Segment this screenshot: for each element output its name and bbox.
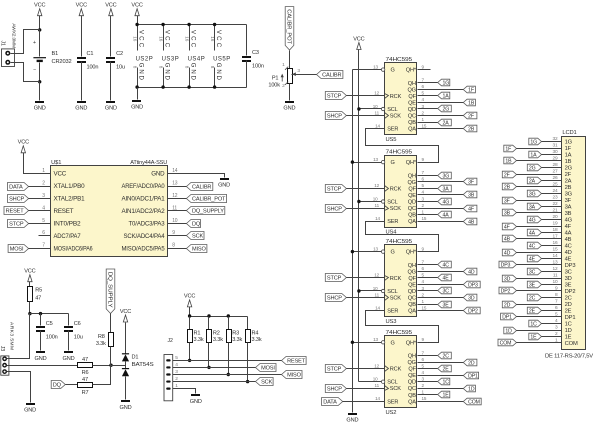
svg-text:11: 11 — [375, 110, 380, 115]
svg-text:J1: J1 — [0, 41, 6, 46]
net label DATA (US2 SER) — [322, 398, 343, 406]
svg-text:16: 16 — [184, 36, 189, 41]
svg-text:DP2: DP2 — [468, 308, 478, 314]
svg-text:3E: 3E — [529, 282, 536, 288]
wire US5 QH to 1G — [418, 82, 438, 84]
svg-text:1C: 1C — [443, 379, 450, 385]
net label 2F (LCD pin 27) — [502, 171, 516, 178]
wire DP1 to LCD pin 5 — [517, 316, 562, 318]
svg-text:23: 23 — [552, 195, 558, 201]
junction VCC rail R1 — [188, 314, 191, 317]
wire US3 QC to 3D — [418, 297, 464, 299]
svg-text:GND: GND — [120, 405, 132, 411]
svg-text:US2P: US2P — [136, 57, 153, 63]
svg-text:CR2032: CR2032 — [52, 59, 72, 65]
wire US2 QC to 1D — [418, 388, 464, 390]
pin stub ADC7/PA7 (pin 6, n.c.) — [39, 235, 51, 237]
net label 3E (LCD pin 10) — [527, 281, 541, 288]
wire 2B to LCD pin 25 — [517, 186, 562, 188]
net label STCP (US4) — [325, 185, 346, 193]
svg-text:3G: 3G — [443, 173, 450, 179]
svg-text:RESET: RESET — [287, 358, 306, 364]
svg-text:5: 5 — [42, 218, 45, 224]
svg-text:12: 12 — [374, 273, 379, 278]
wire U$1 GND pin 14 — [168, 174, 225, 178]
net label RESET (J2) — [282, 357, 307, 365]
net label 2B (LCD pin 25) — [502, 183, 516, 190]
ground (J3) — [26, 403, 35, 405]
svg-text:4A: 4A — [529, 230, 536, 236]
net label MOSI (J2) — [256, 364, 277, 372]
ground (C1) — [77, 101, 86, 103]
wire SHCP to US2 SCK — [347, 388, 385, 390]
battery B1 CR2032 — [39, 30, 41, 57]
svg-text:3.3k: 3.3k — [194, 337, 204, 343]
svg-text:AIN1/ADC2/PA2: AIN1/ADC2/PA2 — [122, 208, 166, 215]
svg-text:CALIBR: CALIBR — [192, 184, 211, 190]
svg-text:2E: 2E — [443, 366, 450, 372]
capacitor C5 100n — [40, 314, 42, 326]
net label 4D (LCD pin 15) — [502, 249, 516, 256]
wire 4F to LCD pin 19 — [517, 226, 562, 228]
shift register US4 74HC595 — [385, 156, 417, 228]
net label SHCP (US5) — [325, 112, 346, 120]
shift register US3 74HC595 — [385, 245, 417, 317]
svg-text:SHCP: SHCP — [327, 113, 342, 119]
svg-text:2G: 2G — [443, 106, 450, 112]
svg-text:10u: 10u — [74, 335, 83, 341]
svg-text:US5P: US5P — [213, 57, 230, 63]
net label 1D (LCD pin 3) — [504, 327, 517, 334]
wire US4 SCL pin to VCC rail — [359, 201, 382, 203]
wire J2 pin4 to MOSI — [173, 367, 256, 369]
wire R7 to node B — [93, 366, 111, 385]
wire US4 QG to 3F — [418, 181, 464, 183]
wire pull-up VCC rail — [190, 316, 248, 318]
svg-text:GND: GND — [163, 63, 170, 81]
svg-text:QC: QC — [408, 296, 416, 302]
net label DATA (U$1 pin 2) — [8, 183, 29, 191]
net label 2B (US5) — [463, 125, 477, 132]
svg-text:−: − — [33, 67, 36, 73]
wire 4C to LCD pin 16 — [542, 245, 562, 247]
svg-text:4E: 4E — [565, 257, 572, 263]
svg-text:15: 15 — [422, 216, 427, 221]
wire SHCP to US5 SCK — [347, 115, 385, 117]
net label 4A (US4) — [438, 211, 452, 218]
svg-text:1A: 1A — [565, 153, 572, 159]
svg-text:1F: 1F — [505, 146, 511, 152]
svg-text:D1: D1 — [132, 354, 139, 360]
svg-text:74HC595: 74HC595 — [386, 330, 413, 336]
svg-text:1D: 1D — [505, 328, 512, 334]
svg-text:US4P: US4P — [188, 57, 205, 63]
resistor R7 47 — [78, 383, 93, 388]
svg-text:GND: GND — [137, 63, 144, 81]
wire rail to C3 — [246, 25, 248, 56]
svg-text:GND: GND — [105, 105, 117, 111]
svg-text:13: 13 — [373, 64, 378, 69]
svg-text:C3: C3 — [252, 50, 259, 56]
wire US2 QH to 2C — [418, 355, 438, 357]
svg-text:1A: 1A — [443, 93, 450, 99]
wire SHCP to pin 3 — [29, 198, 51, 200]
wire GND bottom rail — [138, 87, 247, 89]
net label CALIBR (at P1) — [317, 71, 343, 79]
svg-text:3.3k: 3.3k — [252, 337, 262, 343]
wire 3C to LCD pin 12 — [542, 271, 562, 273]
ground (P1) — [285, 101, 294, 103]
wire P1 wiper to CALIBR label — [292, 74, 317, 76]
svg-text:QB: QB — [408, 213, 416, 219]
svg-text:100k: 100k — [268, 83, 280, 89]
svg-text:2B: 2B — [504, 184, 511, 190]
svg-text:RESET: RESET — [54, 208, 74, 215]
svg-text:2G: 2G — [565, 166, 573, 172]
svg-text:4A: 4A — [443, 212, 450, 218]
svg-text:DP2: DP2 — [501, 288, 511, 294]
svg-text:C5: C5 — [46, 321, 53, 327]
wire 4A to LCD pin 18 — [542, 232, 562, 234]
wire J3 pin2 to R6 — [7, 365, 78, 367]
wire J3 pin3 to ground — [7, 372, 31, 403]
wire US2 QA to COM — [418, 401, 464, 403]
wire 1D to LCD pin 3 — [517, 330, 562, 332]
svg-text:GND: GND — [346, 418, 358, 423]
svg-text:R7: R7 — [82, 390, 89, 396]
wire US4 QB to 4A — [418, 214, 438, 216]
net label 2C (US2) — [438, 352, 452, 359]
junction VCC rail US4 — [357, 200, 360, 203]
wire 3A to LCD pin 22 — [542, 206, 562, 208]
net label 3F (US4) — [463, 178, 477, 185]
svg-text:2A: 2A — [565, 179, 572, 185]
svg-text:74HC595: 74HC595 — [386, 150, 413, 156]
svg-text:J3: J3 — [0, 346, 5, 351]
wire 4E to LCD pin 14 — [542, 258, 562, 260]
svg-text:SCK: SCK — [390, 114, 401, 120]
net label 1F (LCD pin 31) — [504, 145, 517, 152]
svg-text:ADC7/PA7: ADC7/PA7 — [54, 233, 82, 240]
wire US2 QG to 2D — [418, 362, 464, 364]
svg-text:4E: 4E — [529, 256, 536, 262]
resistor R6 47 — [78, 363, 93, 368]
svg-text:2C: 2C — [565, 296, 572, 302]
connector J2 (ISP header) — [164, 355, 173, 401]
wire DQ_SUPPLY to R8 — [110, 314, 112, 333]
svg-text:US3: US3 — [386, 319, 397, 325]
wire R5 to node A — [29, 302, 31, 314]
svg-text:MISO: MISO — [192, 246, 206, 252]
wire US5 G pin to GND rail — [353, 69, 382, 71]
net label DP2 (LCD pin 9) — [499, 287, 517, 294]
pin stub US5 QH* (pin 9, n.c.) — [418, 69, 431, 71]
svg-text:3F: 3F — [468, 179, 474, 185]
wire node B to D1 — [111, 365, 126, 367]
net label 2D (LCD pin 7) — [502, 301, 516, 308]
net label 1C (US2) — [438, 378, 450, 385]
ground (J2) — [191, 394, 200, 396]
svg-text:13: 13 — [172, 180, 178, 186]
svg-text:16: 16 — [132, 36, 137, 41]
connector J1 AWX2.0MM — [2, 49, 15, 67]
svg-text:DP3: DP3 — [565, 263, 576, 269]
svg-text:XTAL2/PB1: XTAL2/PB1 — [54, 196, 86, 203]
svg-text:15: 15 — [422, 396, 427, 401]
junction VCC rail US5 — [357, 107, 360, 110]
wire 1G to LCD pin 32 — [542, 141, 562, 143]
svg-text:R1: R1 — [194, 331, 201, 337]
svg-text:2C: 2C — [529, 295, 536, 301]
wire J2 pin2 to SCK — [173, 381, 256, 383]
wire 3D to LCD pin 11 — [517, 278, 562, 280]
svg-text:2B: 2B — [565, 185, 572, 191]
wire US3 QA to DP2 — [418, 310, 464, 312]
svg-text:GND: GND — [63, 356, 75, 362]
wire 3E to LCD pin 10 — [542, 284, 562, 286]
svg-text:1B: 1B — [565, 159, 572, 165]
net label 2A (US5) — [438, 119, 452, 126]
junction US5P GND — [213, 85, 216, 88]
wire US3 QH to 4C — [418, 264, 438, 266]
wire DP2 to LCD pin 9 — [517, 290, 562, 292]
svg-text:1F: 1F — [565, 146, 572, 152]
net label DP3 (LCD pin 13) — [499, 261, 517, 268]
svg-text:QC: QC — [408, 206, 416, 212]
wire COM to LCD pin 1 — [517, 342, 562, 344]
wire US4 QH to 3G — [418, 175, 438, 177]
net label 4C (LCD pin 16) — [527, 242, 541, 249]
wire US3 QE to DP3 — [418, 284, 464, 286]
svg-text:16: 16 — [210, 36, 215, 41]
junction node A (sensor supply) — [28, 312, 31, 315]
junction US4P VCC — [187, 23, 190, 26]
ground (battery) — [35, 101, 44, 103]
svg-text:3A: 3A — [565, 205, 572, 211]
net label 2A (LCD pin 26) — [527, 177, 541, 184]
svg-text:11: 11 — [375, 292, 380, 297]
svg-text:4A: 4A — [565, 231, 572, 237]
svg-text:C6: C6 — [74, 321, 81, 327]
wire P1 to ground — [289, 84, 291, 101]
net label 3G (US4) — [438, 172, 452, 179]
wire US3 QB to 3E — [418, 304, 438, 306]
svg-text:MOSI: MOSI — [10, 246, 24, 252]
ground (C6) — [64, 351, 73, 353]
wire US4 QE to 3B — [418, 194, 464, 196]
net label 1G (LCD pin 32) — [529, 138, 542, 145]
wire STCP to US3 RCK — [347, 277, 385, 279]
wire VCC to U$1 pin 1 — [24, 153, 51, 174]
wire J2 pin3 to MISO — [173, 374, 282, 376]
junction US3P GND — [161, 85, 164, 88]
svg-text:2D: 2D — [504, 302, 511, 308]
svg-text:GND: GND — [151, 171, 165, 178]
svg-text:2F: 2F — [468, 113, 474, 119]
wire 3B to LCD pin 21 — [517, 212, 562, 214]
svg-text:QA: QA — [408, 219, 416, 225]
svg-text:VCC: VCC — [54, 171, 67, 178]
svg-text:14: 14 — [375, 216, 380, 221]
junction US4P GND — [187, 85, 190, 88]
node battery VCC junction — [38, 28, 41, 31]
svg-text:US5: US5 — [386, 137, 397, 143]
wire US5 QF to 1A — [418, 95, 438, 97]
net label 3B (LCD pin 21) — [502, 209, 516, 216]
net label 1B (LCD pin 29) — [504, 157, 517, 164]
svg-text:C2: C2 — [116, 51, 123, 57]
svg-text:SER: SER — [387, 309, 398, 315]
svg-text:MOSI/ADC6/PA6: MOSI/ADC6/PA6 — [54, 245, 94, 252]
wire STCP to pin 5 — [29, 223, 51, 225]
svg-text:1B: 1B — [505, 158, 512, 164]
svg-text:SER: SER — [387, 127, 398, 133]
svg-text:GND: GND — [189, 63, 196, 81]
svg-text:QD: QD — [408, 107, 416, 113]
junction R1 / J2 wire — [188, 359, 191, 362]
svg-text:SCK: SCK — [390, 206, 401, 212]
net label DQ (U$1 pin 10) — [168, 223, 187, 225]
svg-text:R3: R3 — [232, 331, 239, 337]
wire 3G to LCD pin 24 — [542, 193, 562, 195]
ground (IC supply rail) — [132, 100, 141, 102]
svg-text:G: G — [391, 340, 395, 346]
net label 4B (LCD pin 17) — [502, 235, 516, 242]
wire DATA to US2 SER — [343, 401, 385, 403]
svg-text:16: 16 — [158, 36, 163, 41]
wire US5 SCL pin to VCC rail — [359, 108, 382, 110]
diode D1 BAT54S — [122, 353, 129, 355]
junction US3P VCC — [161, 23, 164, 26]
svg-text:QH*: QH* — [406, 68, 417, 74]
svg-text:15: 15 — [422, 123, 427, 128]
svg-text:3D: 3D — [504, 276, 511, 282]
svg-text:1E: 1E — [565, 335, 572, 341]
wire SHCP to US3 SCK — [347, 297, 385, 299]
svg-text:8: 8 — [172, 243, 175, 249]
wire J1 pin2 to battery - node — [11, 63, 40, 82]
wire US4 QD to 4G — [418, 201, 438, 203]
svg-text:47: 47 — [35, 295, 41, 301]
svg-text:DP2: DP2 — [565, 289, 576, 295]
net label STCP (US2) — [325, 365, 346, 373]
svg-text:GND: GND — [35, 356, 47, 362]
svg-text:3E: 3E — [443, 302, 450, 308]
svg-text:1E: 1E — [530, 334, 537, 340]
net label 4D (US3) — [463, 268, 477, 275]
junction GND rail US2 — [351, 341, 354, 344]
net label COM (US2) — [463, 398, 481, 405]
wire J2 pin1 to ground — [173, 389, 196, 394]
svg-text:3B: 3B — [565, 211, 572, 217]
wire 4B to LCD pin 17 — [517, 238, 562, 240]
svg-text:DP1: DP1 — [468, 373, 478, 379]
svg-text:SCK/ADC4/PA4: SCK/ADC4/PA4 — [124, 233, 166, 240]
wire 1B to LCD pin 29 — [517, 160, 562, 162]
wire R1 to J2 row — [189, 343, 191, 361]
net label 3C (LCD pin 12) — [527, 268, 541, 275]
svg-text:13: 13 — [373, 157, 378, 162]
svg-text:QF: QF — [408, 186, 416, 192]
resistor R3 3.3k — [228, 317, 230, 330]
wire GND rail (shift registers) — [352, 70, 354, 413]
svg-text:14: 14 — [375, 123, 380, 128]
svg-text:SCL: SCL — [387, 289, 397, 295]
svg-text:STCP: STCP — [327, 186, 342, 192]
junction R4 / J2 wire — [246, 380, 249, 383]
wire US4 QA to 4B — [418, 221, 464, 223]
net label 1A (US5) — [438, 92, 450, 99]
net label DP2 (US3) — [463, 307, 480, 314]
wire D1 to ground — [125, 377, 127, 400]
svg-text:VCC: VCC — [215, 30, 222, 48]
wire STCP to US4 RCK — [347, 188, 385, 190]
net label DQ (R7) — [51, 381, 65, 389]
svg-text:AREF/ADC0/PA0: AREF/ADC0/PA0 — [122, 183, 166, 190]
svg-text:DATA: DATA — [323, 399, 337, 405]
wire US5 QE to 1B — [418, 102, 464, 104]
svg-text:SER: SER — [387, 399, 398, 405]
wire node A rail to C6 — [30, 313, 69, 315]
svg-text:DP3: DP3 — [468, 282, 478, 288]
svg-text:R8: R8 — [98, 334, 105, 340]
svg-text:1G: 1G — [530, 139, 537, 145]
wire R4 to J2 row — [247, 343, 249, 382]
svg-text:3D: 3D — [468, 295, 475, 301]
svg-text:2B: 2B — [468, 126, 475, 132]
wire US5 QG to 1F — [418, 89, 464, 91]
svg-text:4C: 4C — [565, 244, 572, 250]
svg-text:GND: GND — [24, 407, 36, 413]
net label MISO (J2) — [282, 371, 303, 379]
svg-text:BAT54S: BAT54S — [132, 362, 154, 368]
svg-text:12: 12 — [374, 363, 379, 368]
svg-text:10: 10 — [373, 377, 378, 382]
svg-text:10u: 10u — [116, 64, 125, 70]
power pins US5P (74HC595 supply) — [214, 25, 216, 51]
svg-text:INT0/PB2: INT0/PB2 — [54, 221, 82, 228]
svg-text:CALIBR_POT: CALIBR_POT — [192, 196, 226, 202]
svg-text:74HC595: 74HC595 — [386, 57, 413, 63]
svg-text:DP3: DP3 — [501, 262, 511, 268]
svg-text:QF: QF — [408, 94, 416, 100]
net label 3D (US3) — [463, 294, 477, 301]
svg-text:3.3k: 3.3k — [213, 337, 223, 343]
svg-text:QE: QE — [408, 373, 416, 379]
net label COM (LCD pin 1) — [498, 339, 517, 346]
wire US2 QF to 2E — [418, 368, 438, 370]
svg-text:DQ: DQ — [53, 382, 62, 388]
svg-text:3B: 3B — [468, 192, 475, 198]
svg-text:4B: 4B — [565, 237, 572, 243]
svg-text:1C: 1C — [530, 321, 537, 327]
svg-text:G: G — [391, 68, 395, 74]
wire 2A to LCD pin 26 — [542, 180, 562, 182]
svg-text:4D: 4D — [565, 250, 572, 256]
svg-text:GND: GND — [218, 183, 230, 189]
svg-text:MISO: MISO — [287, 372, 301, 378]
svg-text:1C: 1C — [565, 322, 572, 328]
net label 4G (LCD pin 20) — [527, 216, 541, 223]
net label 4F (LCD pin 19) — [502, 223, 516, 230]
svg-text:3F: 3F — [565, 198, 572, 204]
net label 4E (LCD pin 14) — [527, 255, 541, 262]
svg-text:3C: 3C — [565, 270, 572, 276]
svg-text:1F: 1F — [468, 87, 474, 93]
svg-text:3D: 3D — [565, 276, 572, 282]
net label 1F (US5) — [463, 86, 475, 93]
svg-text:2G: 2G — [529, 165, 536, 171]
